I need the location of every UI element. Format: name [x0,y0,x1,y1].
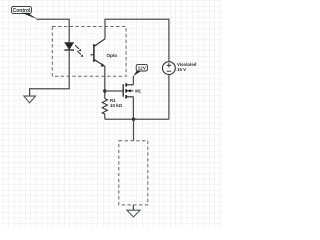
junction (emitter / gate / R1 node) [103,89,106,92]
node Control (callout label) [12,6,38,19]
wire LED cathode to control-side ground [30,50,70,96]
LED D1 (opto emitter) [64,43,74,50]
load placeholder (dashed box) [119,141,148,205]
wire down to load [133,119,135,140]
wire MOSFET source down to bottom rail [132,97,134,120]
wire collector to V+ rail [105,19,169,62]
wire bottom rail (left segment to R1) [105,118,134,120]
svg-text:M1: M1 [135,89,141,94]
wire Control to LED anode [37,19,70,42]
wire V- down to bottom rail [168,75,170,120]
svg-text:12V: 12V [138,66,147,71]
light emission arrows [75,45,83,57]
svg-text:15 V: 15 V [177,67,186,72]
opto-isolator U1 package (dashed box) [52,27,126,77]
wire MOSFET drain stub up to 12V tag [132,76,134,85]
svg-text:10 kΩ: 10 kΩ [110,103,123,108]
transistor M1 (NMOS) [123,83,133,98]
wire gate [105,90,123,92]
svg-text:Opto: Opto [107,53,118,58]
svg-text:Control: Control [13,8,31,14]
label R1 10 kOhm [110,98,123,108]
wire bottom rail (right segment) [134,118,169,120]
wire load bottom stub [132,205,134,210]
ground (load side) [127,210,140,217]
resistor R1 [102,99,107,120]
ground (control side) [24,96,36,103]
transistor Q1 (opto phototransistor) [90,39,105,67]
node 12V (callout label) [133,65,147,77]
label V isolated 15 V [177,62,197,72]
wire emitter down through gate node to R1 top [104,66,106,99]
junction (source / load / rail node) [132,118,135,121]
voltage source V1 [163,62,176,75]
